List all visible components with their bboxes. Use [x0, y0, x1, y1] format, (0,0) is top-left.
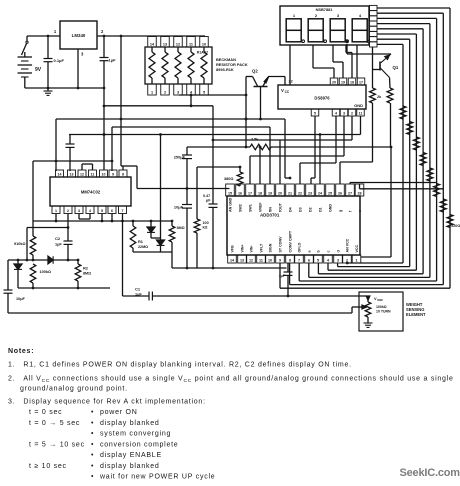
svg-text:1: 1 — [151, 90, 153, 94]
svg-text:4: 4 — [89, 209, 91, 213]
svg-text:1μF: 1μF — [55, 243, 62, 247]
svg-text:3: 3 — [337, 258, 339, 262]
svg-text:fOUT: fOUT — [279, 202, 283, 212]
svg-text:2: 2 — [164, 90, 166, 94]
svg-text:CC: CC — [285, 90, 290, 94]
svg-text:100kΩ: 100kΩ — [376, 305, 387, 309]
svg-text:1. R1, C1 defines POWER ON d: 1. R1, C1 defines POWER ON display blank… — [8, 362, 352, 369]
svg-text:V: V — [281, 88, 284, 93]
svg-text:μF: μF — [206, 199, 211, 203]
svg-text:Notes:: Notes: — [8, 348, 34, 355]
svg-text:18: 18 — [258, 191, 262, 195]
svg-text:VFB: VFB — [231, 245, 235, 253]
svg-text:t ≥ 10 sec: t ≥ 10 sec — [29, 463, 67, 470]
svg-text:10μF: 10μF — [16, 297, 26, 301]
svg-text:5: 5 — [317, 258, 319, 262]
svg-text:10μF: 10μF — [174, 205, 184, 210]
svg-text:OFLO: OFLO — [298, 242, 302, 252]
svg-text:13: 13 — [240, 258, 244, 262]
svg-text:0.47: 0.47 — [203, 194, 210, 198]
svg-text:D3: D3 — [299, 207, 303, 212]
svg-text:26: 26 — [338, 191, 342, 195]
svg-text:GND: GND — [354, 103, 363, 108]
svg-text:•: • — [91, 409, 94, 416]
svg-text:D2: D2 — [309, 207, 313, 212]
svg-text:7: 7 — [122, 209, 124, 213]
svg-text:VIN-: VIN- — [250, 245, 254, 253]
svg-text:380Ω: 380Ω — [224, 177, 233, 181]
svg-text:10: 10 — [268, 258, 272, 262]
svg-text:display blanked: display blanked — [100, 420, 160, 427]
svg-text:16: 16 — [238, 191, 242, 195]
svg-text:5: 5 — [101, 209, 103, 213]
svg-text:display ENABLE: display ENABLE — [100, 452, 162, 459]
svg-text:11: 11 — [189, 42, 193, 46]
svg-text:11: 11 — [259, 258, 263, 262]
svg-text:1: 1 — [55, 209, 57, 213]
svg-text:2: 2 — [67, 209, 69, 213]
svg-text:display blanked: display blanked — [100, 463, 160, 470]
svg-text:GND: GND — [329, 204, 333, 212]
svg-text:8993-R1K: 8993-R1K — [216, 67, 234, 72]
svg-text:18: 18 — [350, 80, 354, 84]
svg-text:100: 100 — [203, 221, 209, 225]
svg-text:ground/analog ground point.: ground/analog ground point. — [20, 386, 128, 393]
svg-text:9: 9 — [279, 258, 281, 262]
svg-text:SIGN: SIGN — [269, 243, 273, 252]
svg-text:t = 0 → 5 sec: t = 0 → 5 sec — [29, 420, 80, 427]
svg-text:AN GND: AN GND — [229, 197, 233, 212]
svg-text:t = 0 sec: t = 0 sec — [29, 409, 62, 416]
svg-text:R2: R2 — [83, 266, 89, 271]
svg-text:8MΩ: 8MΩ — [83, 272, 91, 276]
svg-text:1: 1 — [355, 258, 357, 262]
svg-text:28: 28 — [357, 191, 361, 195]
svg-text:12: 12 — [80, 172, 84, 176]
svg-text:22: 22 — [289, 80, 293, 84]
svg-text:VFLT: VFLT — [260, 243, 264, 253]
svg-text:1μF: 1μF — [135, 293, 142, 297]
svg-text:power ON: power ON — [100, 409, 138, 416]
svg-text:•: • — [91, 452, 94, 459]
svg-text:250μF: 250μF — [174, 155, 186, 160]
svg-text:12: 12 — [176, 42, 180, 46]
svg-text:c: c — [327, 251, 331, 253]
svg-text:25: 25 — [328, 191, 332, 195]
svg-text:d: d — [337, 250, 341, 252]
svg-text:NSB7881: NSB7881 — [316, 7, 334, 12]
svg-text:15: 15 — [228, 191, 232, 195]
svg-text:910kΩ: 910kΩ — [14, 242, 26, 246]
svg-text:VCC: VCC — [355, 245, 359, 253]
svg-text:14: 14 — [58, 172, 62, 176]
svg-text:1μF: 1μF — [279, 274, 286, 278]
svg-text:ADD3701: ADD3701 — [260, 213, 280, 218]
svg-text:DS8976: DS8976 — [314, 96, 330, 101]
svg-text:4: 4 — [335, 111, 337, 115]
svg-text:1μF: 1μF — [109, 58, 117, 63]
svg-text:fIN: fIN — [269, 207, 273, 212]
svg-text:•: • — [91, 441, 94, 448]
svg-text:ELEMENT: ELEMENT — [406, 312, 426, 317]
svg-text:REF: REF — [377, 298, 383, 302]
svg-text:wait for new POWER UP cycle: wait for new POWER UP cycle — [99, 474, 215, 481]
svg-text:•: • — [91, 431, 94, 438]
svg-text:LM340: LM340 — [72, 33, 86, 38]
svg-text:D4: D4 — [289, 207, 293, 212]
svg-text:CONV CMPT: CONV CMPT — [289, 230, 293, 252]
svg-text:kΩ: kΩ — [203, 226, 208, 230]
svg-text:3MΩ: 3MΩ — [177, 226, 185, 230]
svg-text:MM74C02: MM74C02 — [81, 190, 101, 195]
svg-text:17: 17 — [248, 191, 252, 195]
svg-text:3: 3 — [78, 209, 80, 213]
svg-text:0.1μF: 0.1μF — [54, 58, 65, 63]
svg-text:9V: 9V — [35, 67, 42, 73]
svg-text:10: 10 — [102, 172, 106, 176]
svg-text:17: 17 — [359, 80, 363, 84]
svg-text:SeekIC.com: SeekIC.com — [400, 467, 460, 479]
svg-text:•: • — [91, 474, 94, 481]
svg-text:SW2: SW2 — [239, 204, 243, 212]
svg-text:20: 20 — [278, 191, 282, 195]
svg-text:19: 19 — [341, 80, 345, 84]
svg-text:C1: C1 — [135, 287, 141, 292]
svg-text:Q1: Q1 — [393, 65, 399, 70]
svg-text:AN VCC: AN VCC — [346, 238, 350, 252]
svg-text:6: 6 — [308, 258, 310, 262]
svg-text:10 TURN: 10 TURN — [376, 310, 391, 314]
svg-text:11: 11 — [359, 111, 363, 115]
svg-text:R1AB7: R1AB7 — [197, 51, 208, 55]
svg-text:7: 7 — [298, 258, 300, 262]
svg-text:13: 13 — [163, 42, 167, 46]
svg-text:10: 10 — [202, 42, 206, 46]
svg-text:9: 9 — [112, 172, 114, 176]
svg-text:e: e — [358, 210, 362, 212]
svg-text:SW1: SW1 — [249, 204, 253, 212]
svg-text:D1: D1 — [319, 207, 323, 212]
svg-text:2: 2 — [351, 111, 353, 115]
svg-text:8: 8 — [289, 258, 291, 262]
svg-text:•: • — [91, 463, 94, 470]
svg-text:system converging: system converging — [100, 431, 171, 438]
svg-text:100kΩ: 100kΩ — [40, 270, 52, 274]
svg-text:220Ω: 220Ω — [451, 224, 460, 228]
svg-text:23: 23 — [308, 191, 312, 195]
svg-text:19: 19 — [268, 191, 272, 195]
svg-text:5: 5 — [203, 90, 205, 94]
svg-text:27: 27 — [348, 191, 352, 195]
svg-text:3. Display sequence for Rev: 3. Display sequence for Rev A ckt implem… — [8, 399, 206, 406]
svg-text:20: 20 — [332, 80, 336, 84]
svg-text:R1: R1 — [138, 239, 144, 244]
svg-text:ST CONV: ST CONV — [279, 236, 283, 253]
svg-text:12: 12 — [249, 258, 253, 262]
svg-text:8: 8 — [122, 172, 124, 176]
svg-text:g: g — [339, 210, 343, 212]
svg-text:21: 21 — [288, 191, 292, 195]
svg-text:11: 11 — [91, 172, 95, 176]
svg-text:t = 5 → 10 sec: t = 5 → 10 sec — [29, 441, 85, 448]
svg-text:22MΩ: 22MΩ — [138, 245, 148, 249]
svg-text:6: 6 — [111, 209, 113, 213]
svg-text:VREF: VREF — [259, 202, 263, 212]
svg-text:Q2: Q2 — [252, 69, 258, 74]
svg-text:3: 3 — [177, 90, 179, 94]
svg-text:22: 22 — [298, 191, 302, 195]
svg-text:3: 3 — [343, 111, 345, 115]
svg-text:conversion complete: conversion complete — [100, 441, 178, 448]
svg-text:•: • — [91, 420, 94, 427]
svg-text:VIN+: VIN+ — [241, 244, 245, 252]
svg-text:C2: C2 — [55, 236, 61, 241]
svg-text:13: 13 — [70, 172, 74, 176]
svg-text:5: 5 — [314, 111, 316, 115]
